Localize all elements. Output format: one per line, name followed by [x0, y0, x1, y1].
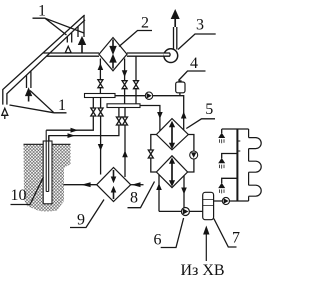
header bar 1 — [85, 94, 116, 98]
coil loop 2 — [249, 161, 262, 172]
heat exchanger 2 (diamond) — [99, 38, 127, 71]
valve line from pipe to header bar2 — [134, 56, 139, 104]
valve line bar2 to borehole return header — [49, 108, 122, 142]
svg-text:4: 4 — [190, 55, 198, 72]
HX9 right line with arrow — [131, 182, 144, 187]
label 2 underline and leader — [119, 31, 152, 47]
pump P1 — [145, 92, 152, 99]
tap fixture 2 — [218, 154, 237, 169]
label 10 underline and leader — [11, 177, 44, 205]
HX5 right rail with pump P2 — [188, 135, 198, 173]
collector left riser open end arrow (hollow) — [2, 108, 8, 119]
elbow / air separator at riser 3 — [164, 49, 178, 63]
label 8 underline and leader — [128, 182, 155, 208]
label 7 underline and leader — [214, 219, 237, 248]
valve line from HX2 bottom-right to header bar2 — [122, 59, 128, 104]
collector stub left flow arrow — [26, 89, 31, 102]
HX9 left outlet to borehole with arrow — [64, 182, 97, 187]
label 4 leader — [179, 71, 206, 81]
collector stub left — [27, 71, 31, 88]
pump 6 — [181, 208, 189, 216]
pump P4 — [222, 197, 229, 204]
valve line bar2 down to HX9 (right feed) — [122, 108, 128, 178]
storage tank 7 — [203, 192, 214, 219]
heat exchanger 2 internal arrows — [110, 40, 116, 69]
cold water inlet arrow — [203, 226, 209, 262]
tank charge line HX5 to tank with up arrow — [156, 175, 162, 212]
label 5 leader — [186, 119, 215, 129]
valve line bar1 to borehole supply — [46, 98, 96, 133]
label 6 underline and leader — [161, 218, 184, 248]
heat exchanger 9 (diamond) — [97, 168, 131, 202]
svg-text:2: 2 — [141, 15, 149, 32]
expansion vessel 4 — [176, 81, 185, 96]
vent riser 3 (double line) — [174, 27, 177, 50]
label 3 underline and leader — [178, 34, 216, 50]
svg-text:1: 1 — [38, 3, 46, 20]
label 1 (lower) leader lines — [10, 91, 67, 113]
solar collector roof line A (upper) — [3, 15, 85, 105]
bottom line to tank through pump 6 — [159, 210, 203, 212]
header bar 2 — [107, 104, 140, 108]
tap fixture 3 — [218, 178, 237, 193]
HX5 lower internal double arrow — [169, 157, 175, 186]
label 1 (top) leader lines — [33, 18, 85, 35]
svg-text:9: 9 — [77, 212, 85, 229]
heat exchanger 5 lower diamond — [156, 156, 187, 188]
svg-text:8: 8 — [130, 190, 138, 207]
svg-text:6: 6 — [154, 232, 162, 249]
svg-text:Из ХВ: Из ХВ — [180, 262, 224, 279]
valve line from HX2 bottom-left to header bar1 — [98, 59, 104, 94]
borehole inner pipe — [46, 130, 49, 191]
svg-text:1: 1 — [58, 97, 66, 114]
DHW riser — [236, 129, 238, 201]
valve line bar1 down to HX9 (left feed) — [98, 98, 104, 175]
main pipe right segment to elbow — [127, 53, 169, 56]
feed line bar2 end to HX5 left top — [140, 106, 163, 132]
heat exchanger 5 upper diamond — [156, 119, 188, 150]
coil loop 3 — [249, 185, 262, 196]
HX5 left rail with valve — [148, 135, 156, 173]
HX5 upper internal double arrow — [169, 121, 175, 149]
soil hatch around borehole — [24, 145, 71, 212]
collector peak down-pipe — [78, 16, 84, 37]
circulation pump line bar1 to unit 5 — [115, 96, 184, 130]
svg-text:10: 10 — [11, 187, 27, 204]
label 9 underline and leader — [70, 200, 104, 228]
towel coil riser with loops — [248, 129, 250, 201]
tank top line to DHW risers through pump P4 — [214, 200, 249, 202]
HX5 down line to pump 6 — [181, 176, 187, 208]
riser union ticks — [237, 141, 240, 151]
collector stub right — [67, 32, 71, 42]
svg-text:7: 7 — [232, 230, 240, 247]
vent riser discharge arrow — [172, 11, 179, 27]
svg-text:5: 5 — [205, 101, 213, 118]
coil loop 1 — [249, 138, 262, 149]
solar collector roof line B (lower) — [7, 20, 85, 105]
collector stub right flow arrow (hollow) — [65, 46, 71, 53]
tap fixture 1 — [218, 129, 225, 143]
HX9 internal arrows — [111, 170, 117, 199]
riser top header line — [222, 128, 249, 130]
main supply pipe (double line) left segment — [43, 53, 99, 56]
svg-text:3: 3 — [196, 17, 204, 34]
collector peak flow arrow — [79, 37, 85, 53]
ground surface line — [24, 143, 71, 145]
borehole casing 10 — [43, 141, 52, 204]
flow arrow up into HX5 right top — [181, 112, 187, 119]
